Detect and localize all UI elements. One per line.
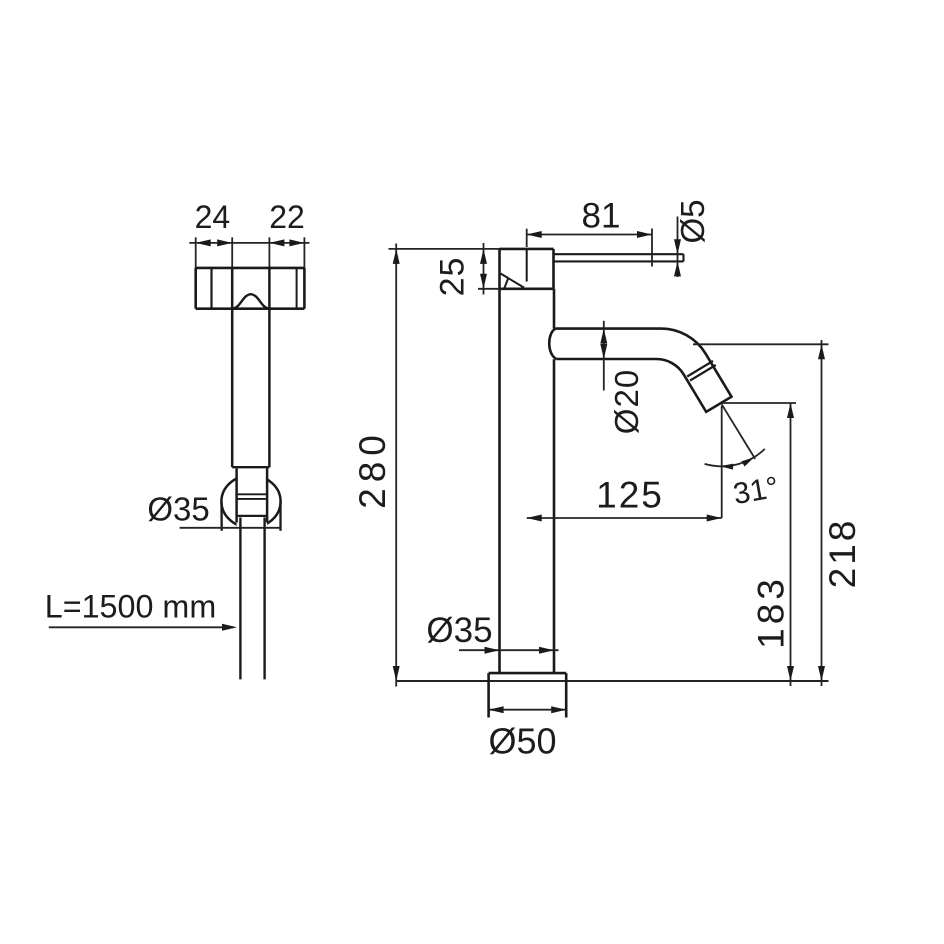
dimension diameter 20 (603, 321, 605, 391)
dimension 218 (821, 340, 823, 686)
bracket clamp mask (237, 469, 268, 531)
spout axis extension line (722, 404, 755, 459)
shower hose (239, 518, 241, 680)
bracket clamp horizontals (237, 493, 268, 495)
dimension line 24/22 (hand shower head) (189, 242, 309, 244)
svg-text:L=1500 mm: L=1500 mm (45, 589, 216, 625)
extension lines above shower head (195, 237, 197, 268)
dimension diameter 35 (column) (459, 649, 559, 651)
dimension 125 (527, 517, 722, 519)
extension line spout tip (218) (693, 343, 829, 345)
mixer column (498, 289, 501, 673)
dimension diameter 5 (677, 217, 679, 278)
hand shower head body (196, 267, 305, 270)
angle arc arrow at vertical (720, 464, 733, 470)
handle bottom joint line (232, 466, 269, 468)
svg-text:125: 125 (596, 475, 664, 516)
dimension 81 (526, 229, 528, 247)
svg-text:Ø5: Ø5 (674, 199, 711, 243)
shower handle sides (231, 268, 234, 467)
spout outline (549, 329, 731, 412)
dimension 183 (790, 403, 792, 686)
svg-text:24: 24 (195, 199, 231, 235)
svg-text:280: 280 (352, 429, 393, 509)
mounting baseline (396, 680, 828, 682)
angle arc arrow at axis (741, 457, 754, 466)
mixer head (cartridge housing) (500, 248, 554, 251)
svg-text:81: 81 (582, 197, 621, 236)
svg-text:25: 25 (434, 257, 472, 297)
aerator lines (690, 365, 716, 381)
bracket ring (holder) (221, 475, 280, 528)
svg-text:22: 22 (269, 199, 305, 235)
dimension 280 (395, 244, 397, 687)
bracket clamp verticals (235, 468, 238, 522)
extension line outlet (183) (722, 402, 796, 404)
bracket legs (220, 502, 222, 531)
hose leader line with arrow (49, 626, 233, 628)
svg-text:Ø35: Ø35 (147, 491, 209, 528)
angle arc 31 (705, 449, 765, 466)
leader line under O35 (180, 527, 281, 529)
svg-text:31°: 31° (731, 471, 781, 511)
top extension line (389, 248, 500, 250)
angle reference vertical line (721, 406, 723, 518)
svg-text:Ø50: Ø50 (488, 721, 556, 762)
svg-text:218: 218 (822, 518, 863, 589)
base flange (489, 672, 567, 675)
svg-text:Ø35: Ø35 (426, 611, 492, 650)
dimension diameter 50 (489, 709, 567, 711)
lever wedge lines (501, 274, 525, 288)
dimension 25 (478, 288, 500, 290)
svg-text:183: 183 (751, 575, 792, 649)
lever rod (554, 253, 684, 255)
svg-text:Ø20: Ø20 (608, 369, 645, 434)
shower handle top dome (232, 294, 269, 309)
